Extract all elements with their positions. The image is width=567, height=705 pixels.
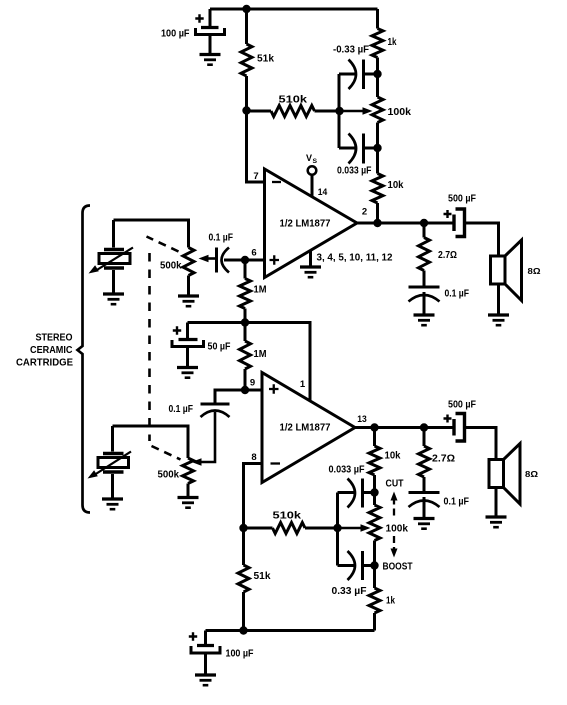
op-amp U1B 1/2 LM1877 (bottom): [262, 373, 355, 483]
capacitor C13 500uF output (bottom): [444, 414, 465, 442]
ground under cartridge element (top): [103, 294, 124, 304]
svg-text:6: 6: [251, 248, 256, 259]
label R4 100k: [388, 107, 412, 118]
wire pin 9 to C8: [215, 390, 245, 404]
resistor R1 51k (top): [241, 9, 252, 111]
node 10k / 0.033uF junction: [370, 488, 378, 496]
label R11 510k: [273, 511, 302, 522]
capacitor C7 50uF bias bypass: [172, 323, 204, 368]
ground under LS2: [486, 517, 507, 527]
resistor R9 1M bias (bottom): [240, 323, 251, 391]
label C2 0.33 uF: [333, 45, 369, 56]
node 1k / 0.33uF junction: [373, 70, 381, 78]
node output / 2.7 ohm (bottom): [420, 423, 428, 431]
wire speaker to ground (top): [497, 284, 500, 315]
wire pin 8 to feedback: [244, 464, 263, 529]
label R3 1k: [388, 37, 397, 48]
wire bottom supply rail: [206, 629, 375, 632]
svg-text:1/2 LM1877: 1/2 LM1877: [280, 423, 331, 434]
svg-text:2.7Ω: 2.7Ω: [438, 250, 457, 261]
label C3 0.033 uF: [337, 166, 372, 177]
resistor R15 51k (bottom): [238, 528, 249, 631]
ground under R10: [178, 498, 199, 508]
svg-text:3, 4, 5, 10, 11, 12: 3, 4, 5, 10, 11, 12: [317, 253, 393, 264]
svg-text:0.1 µF: 0.1 µF: [209, 233, 234, 244]
ground under cartridge element (bottom): [102, 499, 123, 509]
transducer cartridge element (top): [89, 220, 134, 294]
svg-text:500 µF: 500 µF: [448, 194, 476, 205]
speaker LS2 8 ohm (bottom): [489, 444, 520, 505]
wire to speaker (top): [465, 223, 499, 256]
capacitor C11 100uF supply bypass (bottom): [189, 631, 220, 676]
svg-text:2: 2: [362, 207, 367, 218]
svg-text:500 µF: 500 µF: [448, 400, 476, 411]
ground under C7: [177, 368, 198, 378]
label C7 50 uF: [208, 342, 231, 353]
svg-text:100 µF: 100 µF: [161, 29, 190, 40]
svg-text:V: V: [306, 153, 312, 163]
label R13 10k: [385, 451, 401, 462]
resistor R3 1k (top): [372, 9, 383, 74]
wire midpoint to 50uF: [188, 321, 246, 324]
resistor R16 2.7 ohm (bottom zobel): [419, 428, 430, 493]
svg-text:51k: 51k: [257, 54, 274, 65]
label pin 14: [318, 187, 328, 198]
wire tone wiper riser (bottom): [336, 493, 339, 566]
svg-text:CERAMIC: CERAMIC: [30, 345, 73, 356]
ground under LS1: [488, 315, 509, 325]
resistor R8 1M bias (top): [240, 260, 251, 323]
svg-text:100 µF: 100 µF: [226, 649, 254, 660]
bracket stereo ceramic cartridge: [78, 206, 91, 513]
svg-text:CUT: CUT: [386, 479, 404, 490]
capacitor C3 0.033uF (top tone): [339, 134, 378, 164]
svg-text:7: 7: [253, 171, 258, 182]
potentiometer R12 100k (bottom tone): [369, 493, 380, 566]
label C10 0.33 uF: [332, 586, 367, 597]
label pins 3 4 5 10 11 12: [317, 253, 393, 264]
label pin 1: [300, 379, 306, 390]
svg-text:BOOST: BOOST: [383, 562, 413, 573]
terminal VS supply pin 14: [308, 166, 317, 196]
svg-text:8Ω: 8Ω: [525, 469, 538, 479]
label LS2 8 ohm: [525, 469, 538, 479]
dashed gang link (dual pot): [147, 237, 181, 460]
label R7 500k: [160, 261, 182, 272]
capacitor C1 100uF supply bypass (top): [195, 9, 224, 55]
svg-text:1k: 1k: [388, 37, 397, 48]
node 100k / 0.033uF junction: [373, 144, 381, 152]
wire midpoint to pin 1: [245, 323, 310, 401]
node bias midpoint: [241, 318, 249, 326]
svg-text:0.033 µF: 0.033 µF: [329, 465, 365, 476]
svg-text:100k: 100k: [386, 524, 409, 535]
wiper arrow (bottom pot): [338, 524, 371, 532]
label LS1 8 ohm: [528, 266, 541, 276]
label R2 510k: [279, 95, 308, 106]
node pin 9 input junction: [241, 386, 249, 394]
ground under C4: [414, 315, 435, 325]
potentiometer R10 500k volume (bottom): [183, 458, 194, 498]
svg-text:1M: 1M: [254, 285, 267, 296]
node wiper / 510k junction: [335, 107, 343, 115]
label BOOST: [383, 562, 413, 573]
capacitor C9 0.033uF (bottom tone): [338, 479, 375, 508]
wire tone wiper riser (top): [338, 74, 341, 148]
node bottom rail / 51k junction: [239, 626, 247, 634]
node output / 10k (bottom): [370, 423, 378, 431]
svg-text:2.7Ω: 2.7Ω: [432, 454, 455, 465]
svg-text:50 µF: 50 µF: [208, 342, 231, 353]
svg-text:0.1 µF: 0.1 µF: [444, 497, 470, 508]
label VS: [306, 153, 318, 165]
svg-text:510k: 510k: [279, 95, 308, 106]
label R1 51k: [257, 54, 274, 65]
svg-text:51k: 51k: [254, 571, 271, 582]
svg-text:CARTRIDGE: CARTRIDGE: [16, 357, 73, 368]
label C12 0.1 uF: [444, 497, 470, 508]
svg-text:STEREO: STEREO: [36, 333, 73, 344]
label pin 8: [251, 452, 256, 463]
label R16 2.7 ohm: [432, 454, 455, 465]
svg-text:10k: 10k: [385, 451, 401, 462]
svg-text:0.1 µF: 0.1 µF: [169, 404, 194, 415]
svg-text:500k: 500k: [160, 261, 182, 272]
node top rail / 51k junction: [242, 5, 250, 13]
ground under R7: [178, 296, 199, 306]
arrow BOOST (down): [391, 536, 398, 558]
capacitor C8 0.1uF input (bottom): [192, 404, 230, 466]
label R8 1M: [254, 285, 267, 296]
wire to pin 6: [245, 259, 265, 262]
label pin 6: [251, 248, 256, 259]
svg-text:8: 8: [251, 452, 256, 463]
svg-text:13: 13: [357, 414, 367, 425]
ground under C1: [200, 55, 221, 65]
capacitor C6 0.1uF input (top): [217, 248, 246, 273]
label R9 1M: [254, 349, 267, 360]
label R5 10k: [388, 180, 404, 191]
op-amp U1A 1/2 LM1877 (top): [265, 169, 358, 278]
svg-text:-0.33 µF: -0.33 µF: [333, 45, 369, 56]
label C5 500 uF: [448, 194, 476, 205]
transducer cartridge element (bottom): [88, 426, 132, 499]
label pin 7: [253, 171, 258, 182]
wire output pin 2 (top): [357, 222, 454, 225]
svg-text:1/2 LM1877: 1/2 LM1877: [280, 219, 331, 230]
capacitor C4 0.1uF (top zobel): [409, 287, 440, 315]
resistor R2 510k feedback (top): [247, 106, 340, 117]
label C13 500 uF: [448, 400, 476, 411]
speaker LS1 8 ohm (top): [491, 240, 522, 301]
label pin 9: [250, 378, 255, 389]
wire speaker to ground (bottom): [495, 488, 498, 518]
label pin 13: [357, 414, 367, 425]
node wiper / 510k junction (bottom): [333, 524, 341, 532]
label CUT: [386, 479, 404, 490]
svg-text:1: 1: [300, 379, 306, 390]
resistor R11 510k feedback (bottom): [244, 523, 338, 534]
potentiometer R4 100k (top tone): [340, 74, 384, 148]
ground pins 3,4,5,10,11,12: [300, 251, 321, 277]
resistor R6 2.7 ohm (top zobel): [419, 223, 430, 287]
svg-text:100k: 100k: [388, 107, 412, 118]
wire to pin 9: [245, 389, 262, 392]
capacitor C2 0.33uF (top tone): [339, 60, 378, 90]
label R12 100k: [386, 524, 409, 535]
ground under C12: [414, 519, 435, 529]
label C8 0.1 uF: [169, 404, 194, 415]
label C1 100 uF: [161, 29, 190, 40]
node output / 10k: [373, 219, 381, 227]
label C4 0.1 uF: [445, 289, 470, 300]
capacitor C12 0.1uF (bottom zobel): [409, 493, 440, 519]
capacitor C10 0.33uF (bottom tone): [338, 551, 375, 580]
capacitor C5 500uF output (top): [444, 209, 465, 237]
node output / 2.7 ohm: [420, 219, 428, 227]
label C11 100 uF: [226, 649, 254, 660]
svg-text:0.033 µF: 0.033 µF: [337, 166, 372, 177]
wire to speaker (bottom): [465, 428, 497, 460]
node 51k / 510k / pin7 junction: [242, 106, 250, 114]
svg-text:10k: 10k: [388, 180, 404, 191]
node 100k / 0.33uF BOOST junction: [370, 561, 378, 569]
label R14 1k: [386, 596, 395, 607]
svg-text:14: 14: [318, 187, 328, 198]
label C6 0.1 uF: [209, 233, 234, 244]
resistor R5 10k (top): [372, 148, 383, 223]
node pin 6 input junction: [241, 256, 249, 264]
svg-text:1M: 1M: [254, 349, 267, 360]
arrow CUT (up): [391, 492, 398, 516]
ground under C11: [195, 675, 216, 685]
wire output pin 13 (bottom): [355, 426, 454, 429]
svg-text:1k: 1k: [386, 596, 395, 607]
wire cartridge to volume pot (bottom): [113, 426, 189, 458]
label R6 2.7 ohm: [438, 250, 457, 261]
svg-text:500k: 500k: [158, 470, 180, 481]
label STEREO CERAMIC CARTRIDGE: [16, 333, 73, 369]
svg-text:0.33 µF: 0.33 µF: [332, 586, 367, 597]
svg-text:0.1 µF: 0.1 µF: [445, 289, 470, 300]
wire to pin 7: [247, 111, 265, 183]
svg-text:8Ω: 8Ω: [528, 266, 541, 276]
wire top supply rail: [210, 8, 378, 11]
label R15 51k: [254, 571, 271, 582]
potentiometer R7 500k volume (top): [183, 248, 217, 297]
svg-text:S: S: [313, 158, 318, 165]
label R10 500k: [158, 470, 180, 481]
node pin8 / 510k / 51k junction: [239, 524, 247, 532]
resistor R14 1k (bottom): [369, 566, 380, 631]
svg-text:9: 9: [250, 378, 255, 389]
wire cartridge to volume pot (top): [114, 220, 189, 248]
label pin 2: [362, 207, 367, 218]
svg-text:510k: 510k: [273, 511, 302, 522]
resistor R13 10k (bottom): [369, 428, 380, 493]
label C9 0.033 uF: [329, 465, 365, 476]
